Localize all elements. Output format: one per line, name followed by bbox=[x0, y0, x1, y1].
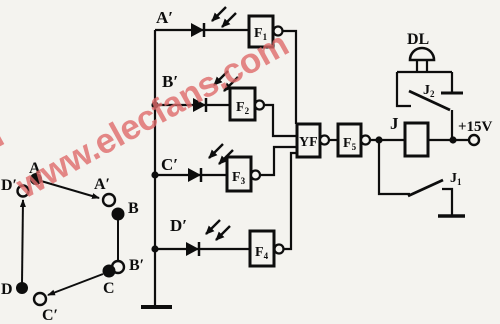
contact J1 blade bbox=[408, 180, 443, 196]
bubble F4 output bbox=[275, 245, 284, 254]
diode VD1 bbox=[191, 23, 204, 37]
wire: A' row horizontal bbox=[155, 29, 250, 31]
node C' bbox=[34, 293, 46, 305]
bubble F2 output bbox=[255, 101, 264, 110]
svg-text:DL: DL bbox=[407, 31, 429, 48]
junction dot B' bbox=[151, 101, 158, 108]
contact J2 fixed bar bbox=[441, 92, 463, 95]
bubble F1 output bbox=[274, 27, 283, 36]
junction node before relay bbox=[375, 136, 382, 143]
node C bbox=[103, 265, 116, 278]
light arrows row 4 bbox=[206, 220, 230, 240]
gate F2 bbox=[230, 88, 255, 120]
svg-text:D′: D′ bbox=[170, 216, 187, 235]
junction node +15V branch bbox=[449, 136, 456, 143]
wire: relay to +15V bbox=[428, 139, 469, 141]
wire: J1 fixed contact hook bbox=[442, 189, 452, 215]
relay coil J bbox=[405, 123, 428, 156]
diode VD4 bbox=[186, 242, 199, 256]
node B' bbox=[112, 261, 124, 273]
wire: YF to F5 bbox=[329, 139, 338, 141]
svg-text:+15V: +15V bbox=[458, 119, 493, 135]
wire: C' row horizontal bbox=[155, 174, 227, 176]
gate YF bbox=[297, 124, 320, 157]
light arrows row 2 bbox=[214, 71, 238, 91]
arrow D to D' bbox=[22, 200, 23, 283]
svg-text:A′: A′ bbox=[94, 176, 110, 193]
wire: left vertical bus bbox=[154, 30, 156, 307]
wire: bell loop top bbox=[397, 71, 452, 73]
svg-text:B: B bbox=[128, 200, 139, 217]
wire: F4 output to YF bbox=[284, 153, 299, 249]
light arrows row 1 bbox=[212, 7, 236, 27]
contact J2 blade bbox=[409, 91, 450, 110]
node B bbox=[112, 208, 125, 221]
wire: junction down to J1 bbox=[379, 140, 410, 194]
junction dot C' bbox=[151, 171, 158, 178]
wire: B' row horizontal bbox=[155, 104, 230, 106]
svg-text:D: D bbox=[1, 281, 13, 298]
light arrows row 3 bbox=[209, 144, 233, 164]
arrow A to A' bbox=[41, 181, 99, 198]
wire: F3 output to YF bbox=[260, 147, 297, 175]
bubble F3 output bbox=[251, 171, 260, 180]
diode VD2 bbox=[193, 98, 206, 112]
bubble F5 output bbox=[361, 136, 370, 145]
bubble YF output bbox=[320, 136, 329, 145]
node D bbox=[16, 282, 28, 294]
node A' bbox=[103, 194, 115, 206]
svg-text:J: J bbox=[390, 114, 399, 133]
gate F1 bbox=[249, 16, 273, 47]
terminal bar J1 bbox=[438, 214, 465, 218]
wire: F1 output to YF bbox=[283, 31, 297, 124]
wire: bell loop left leg bbox=[397, 72, 411, 106]
svg-text:C′: C′ bbox=[42, 307, 58, 324]
terminal +15V bbox=[469, 135, 479, 145]
gate F5 bbox=[338, 124, 361, 156]
node D' bbox=[18, 186, 29, 197]
diode VD3 bbox=[188, 168, 201, 182]
svg-text:C: C bbox=[103, 280, 115, 297]
wire: bar to loop bbox=[451, 72, 453, 92]
ground bbox=[141, 305, 172, 309]
svg-text:YF: YF bbox=[299, 135, 318, 150]
node A bbox=[30, 173, 42, 185]
junction dot D' bbox=[151, 245, 158, 252]
svg-text:B′: B′ bbox=[129, 257, 144, 274]
wire: F5 to relay J bbox=[370, 139, 405, 141]
svg-text:A′: A′ bbox=[156, 8, 173, 27]
gate F4 bbox=[250, 231, 274, 266]
wire: F2 output to YF bbox=[264, 105, 297, 136]
arrow C to C' bbox=[48, 274, 103, 295]
svg-text:C′: C′ bbox=[161, 155, 178, 174]
bell DL bbox=[410, 48, 434, 72]
wire: J2 blade to +15V node bbox=[451, 110, 453, 140]
wire: D' row horizontal bbox=[155, 248, 250, 250]
gate F3 bbox=[227, 157, 251, 191]
wire B to B' bbox=[117, 220, 119, 261]
